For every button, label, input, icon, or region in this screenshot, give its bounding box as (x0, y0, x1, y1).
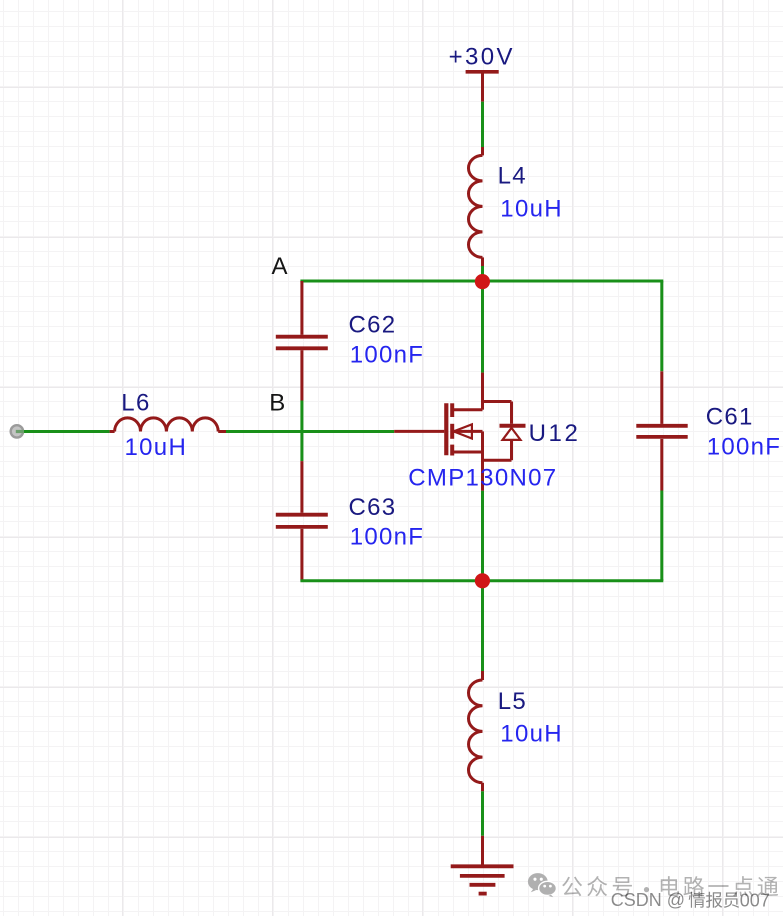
wire (481, 102, 484, 147)
svg-text:C63: C63 (349, 494, 397, 521)
wire (481, 491, 484, 581)
wire (481, 266, 484, 373)
svg-text:007: 007 (740, 890, 770, 910)
wire left vertical (300, 401, 303, 462)
svg-text:CMP130N07: CMP130N07 (408, 464, 557, 491)
capacitor C62 (276, 281, 424, 401)
svg-text:10uH: 10uH (500, 721, 563, 748)
watermark text (562, 876, 778, 910)
ground (451, 836, 514, 894)
svg-text:L5: L5 (498, 688, 527, 715)
wire B horizontal (226, 430, 394, 433)
power +30V (449, 44, 515, 102)
svg-text:L6: L6 (121, 390, 150, 417)
svg-text:100nF: 100nF (707, 434, 782, 461)
wire (660, 491, 663, 581)
wire (481, 581, 484, 671)
inductor L6 (110, 390, 226, 461)
watermark wechat icon (528, 873, 557, 897)
inductor L5 (468, 671, 562, 791)
svg-text:C61: C61 (706, 404, 754, 431)
svg-text:L4: L4 (498, 163, 527, 190)
wire A horizontal (300, 280, 663, 283)
capacitor C63 (276, 461, 424, 581)
svg-text:C62: C62 (349, 312, 397, 339)
svg-text:+30V: +30V (449, 44, 515, 71)
svg-text:100nF: 100nF (350, 523, 425, 550)
svg-text:10uH: 10uH (500, 195, 563, 222)
transistor U12 MOSFET (394, 373, 580, 492)
wire (24, 430, 110, 433)
node junction top (475, 274, 490, 289)
inductor L4 (469, 147, 563, 266)
svg-text:100nF: 100nF (350, 341, 425, 368)
capacitor C61 (636, 371, 781, 490)
node junction bottom (475, 573, 490, 588)
wire bottom horizontal (300, 579, 663, 582)
wire (481, 791, 484, 836)
svg-text:U12: U12 (529, 420, 581, 447)
svg-text:B: B (269, 390, 286, 417)
svg-text:10uH: 10uH (125, 434, 188, 461)
wire right vertical (660, 281, 663, 371)
pin terminal dot (11, 425, 24, 437)
svg-text:CSDN @: CSDN @ (611, 890, 685, 910)
svg-text:A: A (272, 253, 289, 280)
